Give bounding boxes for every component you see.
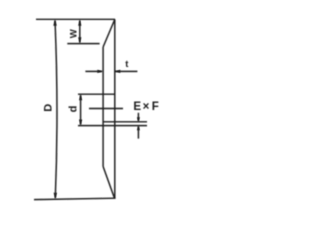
svg-text:W: W [69,29,80,38]
arrowhead d top [79,95,82,101]
arrowhead t right-pointing-left [115,70,121,73]
wire W dimension line [79,21,81,43]
wire d dimension line [80,95,82,124]
wire D dimension line [55,21,57,199]
wire W lower extension line [67,43,99,45]
svg-text:D: D [43,104,55,112]
wire centerline axis [89,108,123,110]
wire t dimension left [85,70,102,72]
wire keyway line [103,121,147,123]
wire bottom extension/edge line [34,198,116,199]
arrowhead ExF down [137,117,140,122]
wire ExF lower arrow tail [137,127,139,139]
arrowhead W bottom [78,37,81,43]
arrowhead D top [53,20,56,26]
svg-text:d: d [67,106,79,113]
arrowhead D bottom [54,193,57,199]
svg-text:E×F: E×F [133,101,158,113]
wire top bevel diagonal [103,19,115,47]
wire bore upper line [78,93,115,95]
svg-text:t: t [125,59,129,70]
arrowhead ExF up [137,126,140,131]
arrowhead W top [78,20,81,26]
node blade right face [114,19,116,198]
wire ExF upper arrow tail [137,113,139,121]
wire bore lower line [78,125,147,127]
wire t dimension right [116,70,138,72]
wire bottom bevel diagonal [103,167,114,199]
wire top extension/edge line [36,18,115,20]
arrowhead d bottom [79,120,82,126]
arrowhead t left-pointing-right [97,70,103,73]
node blade left face [102,47,104,167]
